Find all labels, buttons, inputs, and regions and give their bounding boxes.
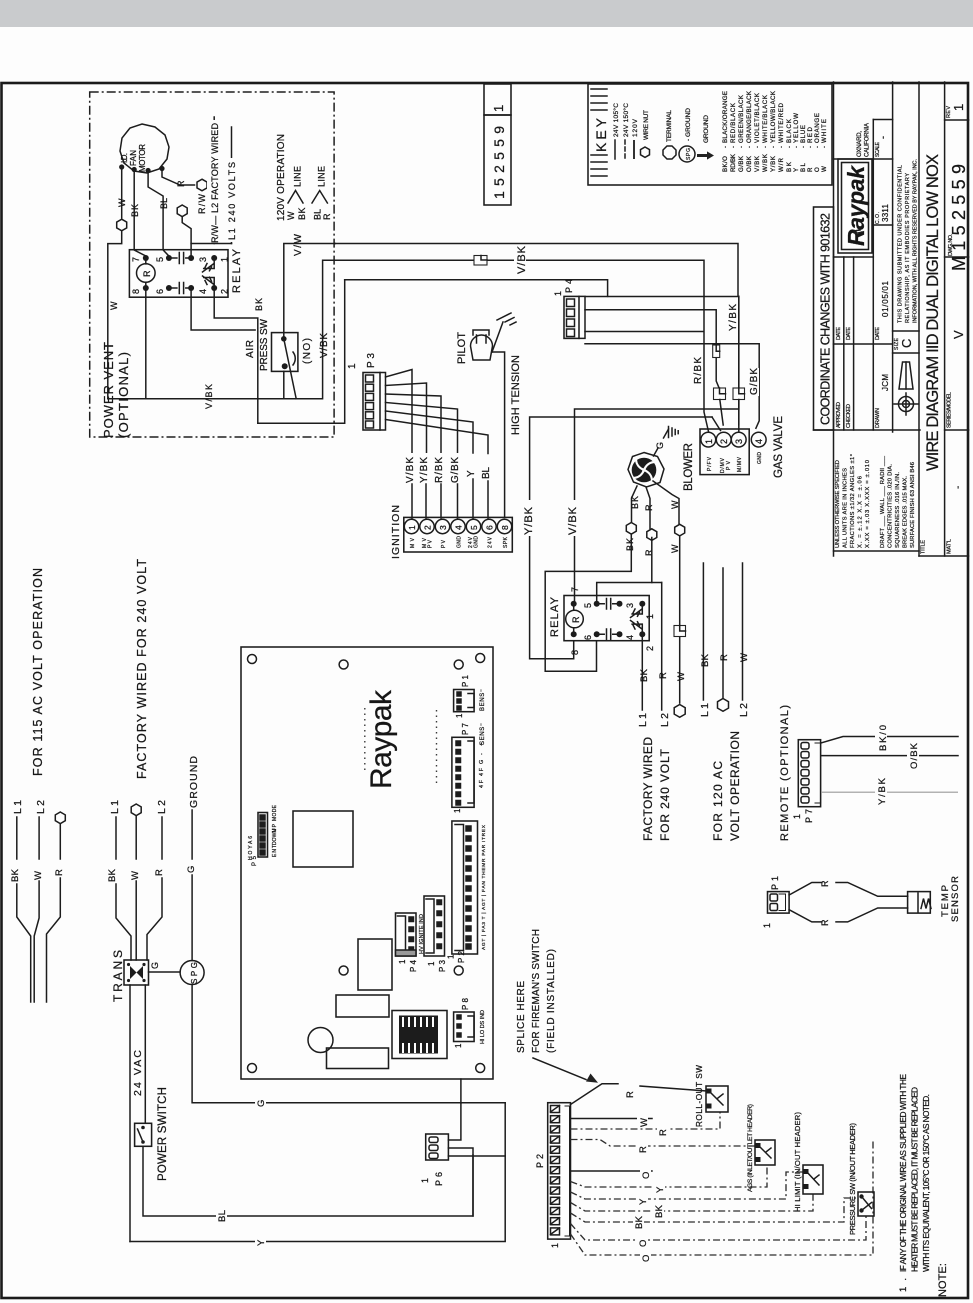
svg-text:X.XX = ±.03 X.XXX = ±.010: X.XX = ±.03 X.XXX = ±.010 [865, 460, 871, 548]
svg-text:SPK: SPK [503, 536, 509, 548]
spade terminal A [714, 388, 726, 400]
blower [628, 453, 664, 488]
svg-text:1: 1 [553, 291, 563, 296]
relay 1 coil [137, 264, 156, 283]
power vent dash-dot enclosure [90, 92, 334, 437]
svg-text:GROUND: GROUND [188, 756, 200, 808]
svg-text:W: W [130, 871, 141, 880]
svg-text:G: G [479, 760, 485, 764]
bottom field wiring [420, 929, 949, 1297]
connector P8 [454, 1012, 475, 1042]
wire L2 R 240 [661, 583, 663, 711]
svg-text:CALIFORNIA: CALIFORNIA [865, 123, 871, 157]
wire nut R/W [177, 205, 187, 217]
svg-text:R: R [322, 213, 332, 220]
svg-text:RD/BK: RD/BK [730, 153, 737, 172]
svg-text:BL: BL [313, 209, 323, 220]
wire relay1 pin8 to airsw return [145, 291, 147, 399]
lower risers to ignition strip [412, 479, 488, 518]
BK dashdot from hilimit bottom [571, 1194, 814, 1211]
splice on V/BK [474, 256, 487, 266]
svg-text:4F: 4F [479, 767, 485, 776]
svg-text:BK: BK [107, 868, 118, 882]
svg-text:G/BK: G/BK [749, 368, 760, 395]
svg-text:Raypak: Raypak [365, 689, 398, 789]
svg-text:FOR 115 AC VOLT OPERATION: FOR 115 AC VOLT OPERATION [31, 568, 45, 776]
svg-text:O: O [638, 1240, 649, 1247]
svg-text:SURFACE FINISH 63 ANSI B46: SURFACE FINISH 63 ANSI B46 [910, 462, 916, 548]
svg-text:GREEN/BLACK: GREEN/BLACK [738, 94, 745, 143]
relay 2 contacts [597, 599, 643, 640]
svg-text:BK: BK [625, 538, 635, 551]
svg-text:GAS VALVE: GAS VALVE [773, 416, 785, 478]
svg-text:DRAFT ___ WALL ___ RADII ___: DRAFT ___ WALL ___ RADII ___ [880, 455, 886, 548]
Y dashdot to AGS bottom [571, 1165, 768, 1187]
P5 header [258, 813, 268, 858]
center wiring [258, 244, 785, 842]
svg-text:G: G [256, 1100, 267, 1107]
tolerance note block [835, 454, 916, 548]
svg-text:5: 5 [155, 257, 165, 262]
svg-text:O: O [641, 1255, 652, 1262]
svg-text:BREAK EDGES .015 MAX.: BREAK EDGES .015 MAX. [903, 476, 909, 548]
high tension wire [492, 352, 505, 517]
processor square [293, 811, 353, 867]
relay 2 box [564, 596, 649, 641]
svg-text:ROLL-OUT SW: ROLL-OUT SW [695, 1065, 704, 1127]
relay 2 coil [566, 610, 584, 628]
svg-text:SPG: SPG [190, 962, 199, 984]
hi limit switch [803, 1165, 823, 1194]
wire Y/BK branch to gas valve 2 [530, 417, 712, 659]
svg-text:O/BK: O/BK [746, 155, 753, 172]
svg-text:-: - [746, 146, 753, 148]
svg-text:-: - [807, 146, 814, 148]
wire W to relay area [108, 231, 122, 399]
svg-text:W/R: W/R [778, 157, 785, 172]
svg-text:R: R [820, 880, 830, 887]
svg-text:BL: BL [217, 1210, 228, 1222]
wire R/W to relay pin3 [182, 217, 191, 258]
svg-text:1: 1 [420, 1178, 430, 1183]
svg-text:120V OPERATION: 120V OPERATION [276, 134, 287, 221]
svg-text:R: R [719, 654, 730, 661]
key color codes [722, 90, 828, 172]
svg-text:YELLOW: YELLOW [793, 113, 800, 143]
wire relay1 pin2 BK exit [214, 291, 258, 423]
svg-text:R: R [154, 869, 165, 876]
svg-text:6: 6 [583, 635, 593, 640]
svg-text:1: 1 [454, 1043, 463, 1048]
wire BL from switch [143, 1146, 473, 1216]
svg-text:2: 2 [423, 525, 433, 530]
svg-text:- GROUND: - GROUND [685, 108, 692, 141]
svg-text:V/BK: V/BK [516, 245, 528, 274]
relay 1 pins [143, 255, 149, 261]
wire L2 factory wired [213, 117, 215, 244]
ignition terminal strip [404, 517, 513, 552]
svg-text:6: 6 [485, 525, 495, 530]
svg-text:3: 3 [438, 525, 448, 530]
svg-text:WHITE/BLACK: WHITE/BLACK [762, 94, 769, 143]
svg-text:M/MV: M/MV [737, 456, 743, 472]
svg-text:RELAY: RELAY [231, 248, 243, 293]
svg-text:P/FV: P/FV [707, 456, 713, 471]
RJ45 jack [392, 1011, 447, 1059]
SPG ground circle [180, 961, 204, 985]
svg-text:O: O [641, 1172, 652, 1179]
svg-text:L1: L1 [109, 800, 121, 814]
svg-text:MV: MV [410, 537, 416, 548]
svg-text:PILOT: PILOT [456, 332, 468, 364]
svg-text:BK: BK [700, 653, 711, 667]
transformer TRANS [124, 960, 149, 985]
gas valve terminal 3 [731, 432, 746, 447]
svg-text:8: 8 [570, 650, 580, 655]
svg-text:W: W [670, 500, 680, 509]
ignition terminal labels [410, 536, 509, 548]
svg-text:SPG: SPG [686, 148, 692, 160]
svg-text:P1: P1 [461, 674, 470, 687]
svg-text:1: 1 [447, 954, 456, 959]
svg-text:PV: PV [428, 539, 434, 548]
G stub trans to SPG [149, 971, 181, 973]
wire airsw return to relay [108, 398, 284, 400]
svg-text:R/BK: R/BK [693, 357, 704, 384]
svg-text:1: 1 [347, 363, 358, 369]
svg-text:(OPTIONAL): (OPTIONAL) [116, 352, 131, 438]
svg-text:4: 4 [198, 289, 208, 294]
power switch [135, 1123, 152, 1146]
remote wires [821, 737, 958, 744]
raypak logo box [838, 159, 872, 253]
temp sensor wires [789, 883, 908, 897]
svg-text:V/BK: V/BK [405, 457, 416, 483]
P7 field connector [798, 740, 820, 807]
svg-text:SQUARENESS .016 IN./IN.: SQUARENESS .016 IN./IN. [895, 472, 901, 548]
svg-text:24V: 24V [488, 536, 494, 548]
svg-text:-: - [821, 146, 828, 148]
pc board [241, 647, 493, 1079]
svg-text:-: - [786, 146, 793, 148]
svg-text:1: 1 [762, 923, 772, 928]
120V group L1 BK [702, 563, 704, 700]
svg-text:3: 3 [625, 603, 635, 608]
svg-text:P3: P3 [366, 353, 377, 368]
pressure switch [858, 1192, 874, 1216]
svg-text:R/W: R/W [197, 194, 207, 215]
svg-text:1: 1 [645, 614, 655, 619]
svg-text:CONCENTRICITIES .020 DIA.: CONCENTRICITIES .020 DIA. [888, 464, 894, 548]
coordinate changes box [814, 207, 834, 430]
relay 2 pin numbers [570, 587, 655, 655]
svg-text:BENS⁻: BENS⁻ [480, 689, 486, 711]
splice on pin2 wire [713, 345, 720, 358]
svg-text:MODE: MODE [272, 804, 278, 821]
key ground arrow [697, 151, 714, 159]
P3 fan wires [386, 370, 489, 454]
svg-text:V/W: V/W [293, 233, 304, 256]
svg-text:G: G [186, 866, 197, 873]
spade terminal B [733, 388, 745, 400]
120V group R capped [722, 568, 724, 698]
svg-text:O: O [814, 167, 821, 172]
svg-text:GROUND: GROUND [703, 115, 710, 143]
svg-text:-: - [878, 136, 888, 139]
blower wire R [646, 487, 650, 529]
wire nut W [675, 524, 685, 536]
svg-text:4: 4 [454, 525, 464, 530]
svg-text:2: 2 [220, 289, 230, 294]
svg-text:BL: BL [800, 162, 807, 172]
wire G SPG to board [192, 985, 505, 1103]
svg-text:LINE: LINE [293, 166, 303, 187]
svg-text:BK: BK [630, 496, 640, 509]
svg-text:BL: BL [159, 198, 169, 209]
svg-text:W: W [670, 544, 680, 553]
svg-text:3: 3 [198, 257, 208, 262]
svg-text:BL: BL [481, 467, 492, 479]
svg-text:Y/BK: Y/BK [419, 457, 430, 483]
svg-text:R: R [142, 270, 152, 277]
label V/BK on airsw return [201, 385, 213, 411]
svg-text:2: 2 [719, 439, 729, 444]
svg-text:4: 4 [625, 635, 635, 640]
svg-text:1: 1 [792, 814, 802, 819]
svg-text:V/BK: V/BK [567, 506, 579, 535]
wire BK motor to relay pin7 [134, 172, 146, 256]
svg-text:GND: GND [757, 452, 763, 464]
svg-text:R: R [658, 1129, 669, 1136]
svg-text:ORANGE: ORANGE [814, 113, 821, 143]
svg-text:W: W [676, 672, 687, 681]
svg-text:TRANS: TRANS [111, 950, 125, 1002]
svg-text:4F: 4F [479, 779, 485, 788]
svg-text:SCALE: SCALE [875, 141, 881, 157]
svg-text:RELAY: RELAY [549, 596, 561, 637]
svg-text:1: 1 [398, 959, 407, 964]
svg-text:7: 7 [131, 257, 141, 262]
blower wire W [653, 481, 679, 524]
wire P4 pin3 to riser junction [585, 331, 704, 333]
third angle projection symbol [894, 362, 918, 415]
svg-text:GND: GND [457, 536, 463, 548]
svg-text:G: G [150, 962, 160, 969]
svg-text:GND: GND [474, 536, 480, 548]
svg-text:24V 105°C: 24V 105°C [612, 103, 620, 137]
svg-text:G/BK: G/BK [450, 457, 461, 483]
svg-text:1: 1 [704, 439, 714, 444]
svg-text:1: 1 [407, 525, 417, 530]
svg-text:MAT'L: MAT'L [947, 539, 953, 554]
key SPG ground symbol [679, 146, 695, 162]
svg-text:FAN: FAN [129, 150, 138, 166]
svg-text:FACTORY WIRED FOR 240 VOLT: FACTORY WIRED FOR 240 VOLT [135, 559, 149, 779]
svg-text:Y/BK: Y/BK [877, 777, 888, 805]
svg-text:NOTE:: NOTE: [937, 1263, 949, 1297]
pilot assembly [471, 322, 504, 360]
wire junction drop to P4 pin1 run [345, 280, 608, 297]
wire nut BK [626, 523, 636, 535]
title block grid [814, 82, 969, 556]
svg-text:L1 240 VOLTS: L1 240 VOLTS [227, 162, 237, 240]
svg-text:CHECKED: CHECKED [846, 404, 852, 428]
svg-text:YELLOW/BLACK: YELLOW/BLACK [770, 90, 777, 143]
115 R capped [55, 812, 65, 824]
svg-text:WIRE DIAGRAM IID DUAL DIGITAL: WIRE DIAGRAM IID DUAL DIGITAL LOW NOX [924, 154, 942, 471]
relay 1 contacts [169, 253, 214, 294]
svg-text:SENSOR: SENSOR [950, 876, 961, 922]
svg-text:V: V [951, 330, 966, 339]
svg-text:-: - [778, 146, 785, 148]
svg-text:-: - [738, 146, 745, 148]
svg-text:Y: Y [655, 1186, 666, 1193]
key line sample 120V [633, 140, 635, 159]
gas valve terminal 4 gnd [751, 432, 766, 447]
svg-text:SENS⁻: SENS⁻ [480, 723, 486, 745]
wire P4 pin4 to G/BK riser [585, 344, 759, 429]
wire W motor [121, 169, 123, 218]
svg-text:P6: P6 [434, 1172, 444, 1186]
svg-text:HIGH TENSION: HIGH TENSION [510, 355, 522, 435]
relay 1 pin numbers [131, 257, 230, 294]
svg-text:L1: L1 [699, 703, 711, 717]
svg-text:W: W [33, 871, 44, 880]
svg-text:24 VAC: 24 VAC [132, 1050, 144, 1096]
svg-text:R: R [807, 167, 814, 172]
svg-text:INFORMATION, WITH ALL RIGHTS R: INFORMATION, WITH ALL RIGHTS RESERVED BY… [913, 159, 919, 323]
key title hatch [591, 89, 607, 176]
wire airsw top to V/W [284, 244, 336, 337]
svg-text:1: 1 [550, 1243, 560, 1248]
key line sample 24V 105C [614, 140, 616, 159]
power vent section [90, 92, 336, 438]
svg-text:5: 5 [469, 525, 479, 530]
connector P4 board [396, 913, 417, 956]
motor pins [119, 164, 124, 169]
svg-text:L1: L1 [637, 713, 649, 727]
svg-text:R/W— L2 FACTORY WIRED: R/W— L2 FACTORY WIRED [210, 123, 220, 244]
svg-text:BLACK: BLACK [786, 118, 793, 143]
wire BK loop from power vent to P4 pin1 riser [258, 280, 345, 424]
blower ground [654, 427, 679, 457]
wire splice-here arrow [533, 1058, 586, 1080]
connector P7 board [452, 737, 474, 807]
svg-text:1: 1 [951, 104, 966, 111]
svg-text:R: R [644, 504, 654, 511]
svg-text:TITLE: TITLE [921, 540, 927, 554]
svg-text:BK: BK [254, 298, 264, 311]
svg-text:BK/O: BK/O [722, 156, 729, 172]
AGS switch [755, 1140, 775, 1165]
stamp box 1 [484, 84, 511, 205]
svg-text:Y/BK: Y/BK [523, 506, 535, 535]
svg-text:P8: P8 [461, 997, 470, 1010]
svg-text:120V: 120V [632, 118, 639, 137]
svg-text:BK: BK [634, 1215, 645, 1229]
svg-text:DATE: DATE [836, 327, 842, 340]
svg-text:R/BK: R/BK [434, 457, 445, 483]
svg-text:PRESSURE SW (IN/OUT HEADER): PRESSURE SW (IN/OUT HEADER) [848, 1123, 857, 1235]
svg-text:W: W [109, 301, 119, 310]
temp sensor [908, 892, 931, 914]
wire nut on W [117, 219, 127, 231]
svg-text:4: 4 [754, 439, 764, 444]
svg-text:2: 2 [645, 646, 655, 651]
title block [814, 82, 970, 556]
wire L1 BK 240 [641, 637, 643, 710]
svg-text:Y/BK: Y/BK [728, 304, 739, 331]
svg-text:BK: BK [639, 668, 650, 682]
svg-text:L2: L2 [659, 713, 671, 727]
bottom components [358, 939, 392, 990]
120V group L2 W [742, 563, 744, 700]
svg-text:1.: 1. [898, 1278, 909, 1292]
svg-text:L2: L2 [156, 800, 168, 814]
svg-text:DATE: DATE [846, 327, 852, 340]
svg-text:BLACK/ORANGE: BLACK/ORANGE [722, 91, 729, 143]
svg-text:P7: P7 [461, 722, 470, 735]
blower wire BK [632, 486, 638, 522]
svg-text:BK: BK [10, 868, 21, 882]
svg-text:I.D.: I.D. [120, 153, 129, 163]
svg-text:1: 1 [220, 257, 230, 262]
relay 2 pins [571, 601, 577, 607]
svg-text:HI LIMIT (IN/OUT HEADER): HI LIMIT (IN/OUT HEADER) [793, 1112, 802, 1212]
svg-text:THIS DRAWING SUBMITTED UNDER C: THIS DRAWING SUBMITTED UNDER CONFIDENTIA… [898, 165, 904, 323]
wire R motor to nut [162, 171, 195, 185]
R dashdot to AGS top [571, 1140, 756, 1147]
connector P3 board [424, 896, 445, 956]
svg-text:BK: BK [786, 161, 793, 172]
svg-text:G/BK: G/BK [738, 155, 745, 172]
svg-text:R: R [54, 869, 65, 876]
svg-text:SERIES/MODEL: SERIES/MODEL [947, 392, 953, 428]
connector P1 board [454, 690, 475, 712]
svg-text:W: W [117, 198, 127, 207]
svg-text:UNLESS OTHERWISE SPECIFIED: UNLESS OTHERWISE SPECIFIED [835, 460, 841, 548]
connector P2 board [452, 821, 478, 954]
svg-text:LINE: LINE [317, 166, 327, 187]
dotted strings [365, 708, 437, 787]
svg-text:R: R [820, 919, 830, 926]
svg-text:FRACTIONS ±1/32 ANGLES ±1°: FRACTIONS ±1/32 ANGLES ±1° [850, 454, 856, 548]
svg-text:WITH ITS EQUIVALENT, 105°C OR: WITH ITS EQUIVALENT, 105°C OR 150°C AS N… [921, 1094, 931, 1272]
ID fan motor [120, 124, 169, 173]
wire V/BK long run [335, 260, 708, 432]
svg-text:P2: P2 [535, 1154, 545, 1168]
svg-text:PRESS SW: PRESS SW [259, 318, 270, 371]
svg-text:JCM: JCM [881, 374, 890, 391]
svg-text:HEATER MUST BE REPLACED, IT MU: HEATER MUST BE REPLACED, IT MUST BE REPL… [910, 1087, 920, 1272]
svg-text:-: - [754, 146, 761, 148]
svg-text:-: - [814, 146, 821, 148]
gas valve terminal 2 [716, 432, 731, 447]
wire BK rail to relay2 pin6 [545, 534, 631, 671]
svg-text:MOTOR: MOTOR [138, 144, 147, 172]
svg-text:FOR 120 AC: FOR 120 AC [711, 761, 725, 841]
svg-text:W: W [739, 653, 750, 662]
svg-text:R: R [638, 1146, 649, 1153]
svg-text:L2: L2 [35, 800, 47, 814]
P6 pin wires [448, 1103, 505, 1216]
svg-text:WHITE/RED: WHITE/RED [778, 102, 785, 143]
svg-text:RELATIONSHIP, AS IT EMBODIES P: RELATIONSHIP, AS IT EMBODIES PROPRIETARY [905, 173, 911, 323]
P3 connector [363, 373, 386, 431]
BK dashdot to pressure top [571, 1198, 859, 1222]
svg-text:W/BK: W/BK [762, 153, 769, 172]
svg-text:R: R [625, 1091, 636, 1098]
